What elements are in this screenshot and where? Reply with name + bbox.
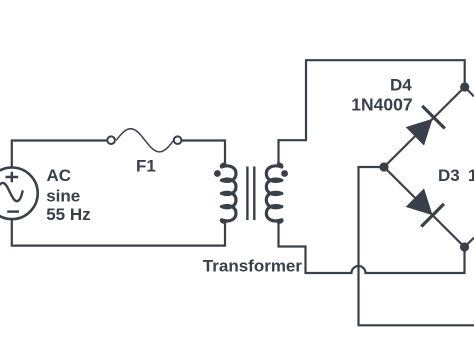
wire bridge top node toward right node (clipped)	[465, 87, 474, 96]
svg-text:Transformer: Transformer	[203, 257, 303, 276]
wire bridge bottom node toward right node (clipped)	[465, 238, 474, 247]
diode D4 wire	[384, 87, 465, 167]
fuse F1 left terminal	[107, 136, 115, 144]
junction node top	[460, 82, 469, 91]
AC source V1 sine waveform	[0, 183, 23, 201]
diode D3 wire	[384, 167, 465, 247]
svg-text:D3: D3	[438, 166, 460, 185]
wire secondary bottom to bridge bottom node with hop	[279, 222, 465, 273]
diode D4 cathode bar	[422, 106, 445, 129]
fuse F1 right terminal	[174, 136, 182, 144]
diode D3 triangle	[406, 188, 433, 215]
diode D3 cathode bar	[421, 204, 444, 227]
transformer core line 2	[253, 167, 255, 221]
svg-text:sine: sine	[46, 186, 80, 205]
transformer core line 1	[246, 167, 248, 221]
svg-text:F1: F1	[136, 156, 156, 175]
wire primary bottom to AC source	[12, 219, 225, 245]
svg-text:1N4007: 1N4007	[468, 166, 474, 185]
fuse F1 element	[116, 129, 174, 152]
AC source plus sign	[6, 172, 19, 182]
wire AC top to fuse	[12, 141, 107, 168]
transformer secondary polarity dot	[281, 170, 288, 177]
junction node left	[379, 162, 388, 171]
diode D4 triangle	[406, 119, 433, 146]
svg-text:1N4007: 1N4007	[351, 95, 412, 115]
AC source V1 circle	[0, 168, 38, 220]
wire secondary top to bridge top node	[279, 60, 465, 164]
transformer primary polarity dot	[214, 170, 221, 177]
junction node bottom	[460, 242, 469, 251]
svg-text:55 Hz: 55 Hz	[46, 205, 90, 224]
transformer T1 primary coil	[221, 164, 236, 223]
svg-text:AC: AC	[47, 166, 72, 185]
transformer T1 secondary coil	[266, 164, 282, 223]
svg-text:D4: D4	[390, 75, 412, 94]
AC source minus sign	[7, 210, 19, 212]
wire fuse to transformer primary top	[182, 141, 225, 165]
wire bridge left node to negative output	[359, 167, 474, 325]
